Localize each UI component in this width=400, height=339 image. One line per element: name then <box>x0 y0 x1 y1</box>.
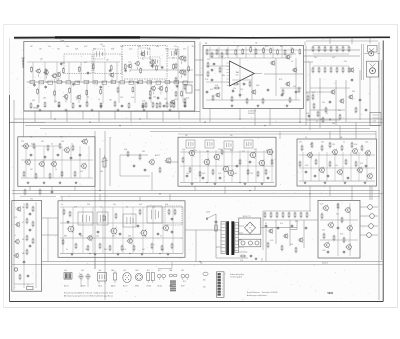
capacitor C42 <box>343 250 346 254</box>
transistor Q44 <box>351 148 357 155</box>
scan noise wash <box>10 38 383 301</box>
resistor R62 <box>115 213 117 220</box>
block G inner buses <box>299 155 375 181</box>
transistor Q11 <box>170 99 175 108</box>
IF transformer T2 <box>138 48 150 58</box>
transistor Q43 <box>331 149 337 156</box>
horizontal supply rail 2 <box>10 122 383 123</box>
svg-text:330: 330 <box>142 151 145 153</box>
legend small symbol a <box>203 272 208 288</box>
transformer core bar 2 <box>231 221 234 255</box>
block B capacitors <box>211 68 284 97</box>
transistor Q61 <box>344 207 350 214</box>
transistor Q18 <box>285 81 290 87</box>
resistor R58 <box>32 238 34 245</box>
svg-text:47n: 47n <box>280 223 283 225</box>
op-amp module border <box>203 46 304 109</box>
svg-text:560: 560 <box>66 46 69 48</box>
resistor R57 <box>32 221 34 228</box>
front panel control P4 <box>367 233 378 238</box>
svg-text:0,1: 0,1 <box>265 223 267 225</box>
transistor Q40 <box>222 165 229 173</box>
transistor Q15 <box>149 59 154 68</box>
volume potentiometer <box>100 155 108 173</box>
capacitor C41 <box>327 250 330 254</box>
capacitor C37 <box>157 232 160 236</box>
svg-text:Alle Spannungen gemessen mit R: Alle Spannungen gemessen mit Rohrenvoltm… <box>64 295 113 298</box>
svg-text:Bemerkung: Schaltbild Nr. 5010: Bemerkung: Schaltbild Nr. 5010-23 · Gult… <box>64 292 113 295</box>
transistor Q23 <box>349 67 354 73</box>
block I labels <box>61 204 168 251</box>
svg-text:15k: 15k <box>233 88 236 90</box>
block D ground symbols <box>27 181 78 184</box>
transistor Q53 <box>14 253 19 259</box>
transistor Q8 <box>127 63 132 72</box>
capacitor C28 <box>365 164 368 168</box>
svg-text:220: 220 <box>306 93 309 95</box>
bus resistor chain <box>30 80 188 84</box>
svg-text:100: 100 <box>100 44 103 46</box>
block F inner verticals <box>184 150 272 182</box>
IF transformer T5 <box>186 140 195 148</box>
resistor R33 <box>212 169 214 176</box>
block G inner verticals <box>303 152 367 181</box>
detector stage <box>124 149 161 173</box>
svg-text:33k: 33k <box>62 62 65 64</box>
capacitor C29 <box>29 212 32 216</box>
svg-text:8,2k: 8,2k <box>192 46 195 48</box>
svg-text:33k: 33k <box>112 236 115 238</box>
IF transformer T4 <box>168 49 179 58</box>
capacitor C31 <box>29 244 32 248</box>
svg-text:47n: 47n <box>76 99 79 101</box>
right vertical bus 2 <box>380 60 382 260</box>
power area labels <box>200 216 328 265</box>
svg-text:0,22: 0,22 <box>202 173 205 175</box>
resistor R50 <box>345 159 347 166</box>
svg-text:0,1: 0,1 <box>316 121 318 123</box>
resistor R23 <box>59 143 61 150</box>
capacitor C24 <box>305 170 308 174</box>
transistor Q10 <box>158 85 163 94</box>
svg-text:22n: 22n <box>113 204 116 206</box>
transistor Q38 <box>249 151 256 159</box>
front panel control P2 <box>370 214 378 219</box>
svg-text:4,7k: 4,7k <box>270 240 273 242</box>
svg-text:3,3k: 3,3k <box>215 85 218 87</box>
svg-text:220: 220 <box>332 144 335 146</box>
legend symbol EABC <box>169 269 177 288</box>
transistor Q52 <box>14 239 19 245</box>
svg-text:68k: 68k <box>222 75 225 77</box>
capacitor C22 <box>249 160 252 164</box>
svg-text:BV100: BV100 <box>34 108 39 110</box>
connector strip <box>217 272 225 298</box>
transistor Q49 <box>366 173 372 180</box>
capacitor C19 <box>202 176 205 180</box>
transistor Q67 <box>283 233 288 239</box>
svg-text:4,7k: 4,7k <box>14 217 17 219</box>
svg-text:15k: 15k <box>314 57 317 59</box>
resistor R47 <box>299 161 301 168</box>
svg-text:100: 100 <box>234 173 237 175</box>
resistor R78 <box>343 237 345 244</box>
wire B-to-C <box>304 44 364 80</box>
svg-text:1n: 1n <box>71 144 73 146</box>
AFC block border <box>12 201 42 292</box>
AF transformer T9 <box>78 212 93 225</box>
legend text stack <box>170 281 186 292</box>
left corner wiring <box>10 111 45 137</box>
legend symbol AC151 <box>64 269 72 288</box>
oscillator dashed box 1 <box>64 54 92 74</box>
tuner IF block border <box>24 42 195 112</box>
rectifier output wires <box>261 228 297 262</box>
resistor R70 <box>133 245 135 252</box>
resistor R37 <box>257 171 259 178</box>
svg-text:8,2k: 8,2k <box>150 59 153 61</box>
svg-text:6,8k: 6,8k <box>306 113 309 115</box>
resistor R72 <box>161 245 163 252</box>
transistor Q42 <box>306 152 312 159</box>
svg-text:1k: 1k <box>27 285 29 287</box>
svg-text:33k: 33k <box>81 141 84 143</box>
svg-text:10k: 10k <box>22 239 25 241</box>
svg-text:0,47: 0,47 <box>332 57 335 59</box>
antenna <box>21 58 24 68</box>
transistor Q17 <box>285 54 290 60</box>
svg-text:220: 220 <box>87 204 90 206</box>
block B under-triangle parts <box>232 80 252 90</box>
svg-text:1k: 1k <box>55 169 57 171</box>
svg-text:220: 220 <box>40 59 43 61</box>
svg-text:22n: 22n <box>30 137 33 139</box>
block D lower parts <box>20 189 56 201</box>
svg-text:33k: 33k <box>200 263 203 265</box>
IF transformer T7 <box>224 141 233 149</box>
transistor Q29 <box>38 161 44 168</box>
block A internal verticals <box>33 62 183 103</box>
svg-text:100: 100 <box>293 86 296 88</box>
block A mid caps row <box>145 97 175 109</box>
transistor Q33 <box>63 147 69 154</box>
svg-text:10k: 10k <box>321 142 324 144</box>
svg-text:470: 470 <box>242 151 245 153</box>
block A resistors <box>30 63 189 97</box>
svg-text:10k: 10k <box>332 123 335 125</box>
resistor R27 <box>49 173 51 180</box>
svg-text:330: 330 <box>254 149 257 151</box>
block B inner hwires <box>206 50 303 100</box>
power supply lower parts <box>216 252 257 260</box>
legend symbol AC117 <box>123 269 131 288</box>
right resistor row upper <box>312 46 350 55</box>
transistor Q30 <box>50 161 56 168</box>
schematic frame bottom border <box>10 301 384 303</box>
svg-text:24-6070: 24-6070 <box>248 113 255 115</box>
transistor Q34 <box>188 149 195 157</box>
left-of-K resistors <box>267 242 297 254</box>
resistor R52 <box>26 203 28 210</box>
svg-text:EM8: EM8 <box>136 270 139 272</box>
legend symbol EM84 <box>135 270 143 288</box>
left vertical bus <box>13 100 15 290</box>
transistor Q41 <box>266 148 273 156</box>
svg-text:10k: 10k <box>186 173 189 175</box>
block A right column parts <box>175 46 192 110</box>
power to K wire <box>262 220 297 262</box>
svg-text:470: 470 <box>299 142 302 144</box>
svg-text:1n: 1n <box>66 249 68 251</box>
svg-text:800: 800 <box>203 287 206 289</box>
svg-text:1k: 1k <box>61 204 63 206</box>
svg-text:5010: 5010 <box>328 292 334 295</box>
svg-text:220: 220 <box>61 141 64 143</box>
resistor R44 <box>341 145 343 152</box>
resistor R76 <box>341 217 343 224</box>
svg-text:4,7k: 4,7k <box>131 97 134 99</box>
transistor Q19 <box>251 89 256 95</box>
resistor R38 <box>265 169 267 176</box>
svg-text:470: 470 <box>322 230 325 232</box>
capacitor C18 <box>186 174 189 178</box>
transistor Q9 <box>150 85 155 94</box>
legend symbol BC148 <box>147 270 155 288</box>
schematic frame top smudged line <box>14 37 390 39</box>
svg-text:0,22: 0,22 <box>84 46 87 48</box>
svg-text:NF: NF <box>205 43 207 45</box>
resistor R40 <box>301 145 303 152</box>
block A bottom border emphasis <box>24 108 200 112</box>
svg-text:220: 220 <box>102 46 105 48</box>
legend caption text <box>64 292 113 298</box>
svg-text:0,22: 0,22 <box>129 49 132 51</box>
svg-text:120: 120 <box>250 173 253 175</box>
svg-text:220: 220 <box>21 141 24 143</box>
capacitor C33 <box>67 220 70 224</box>
svg-text:10k: 10k <box>153 97 156 99</box>
svg-text:3,3k: 3,3k <box>354 144 357 146</box>
resistor R68 <box>109 245 111 252</box>
block K inner wires <box>320 203 358 256</box>
transistor Q59 <box>126 238 132 245</box>
svg-text:1n: 1n <box>343 142 345 144</box>
resistor R75 <box>337 203 339 210</box>
resistor R32 <box>199 171 201 178</box>
svg-text:3,3k: 3,3k <box>120 46 123 48</box>
svg-text:1k: 1k <box>14 235 16 237</box>
svg-text:2,2k: 2,2k <box>147 49 150 51</box>
svg-text:6,8k: 6,8k <box>75 49 78 51</box>
transistor Q55 <box>110 227 117 235</box>
block B lower resistors <box>214 87 291 104</box>
svg-text:33k: 33k <box>352 91 355 93</box>
speaker jack symbol 2 <box>367 61 379 77</box>
resistor R53 <box>26 218 28 225</box>
capacitor C16 <box>70 156 73 160</box>
resistor R51 <box>355 161 357 168</box>
svg-text:47n: 47n <box>174 46 177 48</box>
resistor R22 <box>47 145 49 152</box>
resistor R46 <box>361 145 363 152</box>
svg-text:3,3k: 3,3k <box>186 97 189 99</box>
resistor R56 <box>32 206 34 213</box>
svg-text:2,2k: 2,2k <box>218 173 221 175</box>
block D labels <box>21 141 84 173</box>
svg-text:120: 120 <box>218 149 221 151</box>
feedback resistor row <box>235 46 301 56</box>
resistor R29 <box>74 171 76 178</box>
svg-text:B25: B25 <box>182 270 185 272</box>
resistor R55 <box>26 249 28 256</box>
transistor Q54 <box>67 225 74 233</box>
svg-text:0,1: 0,1 <box>291 61 293 63</box>
wires H to I <box>42 218 58 262</box>
svg-text:220: 220 <box>80 236 83 238</box>
area C wiring <box>310 62 370 130</box>
front panel control P3 <box>369 224 378 229</box>
svg-text:100: 100 <box>338 110 341 112</box>
transistor Q5 <box>63 94 68 103</box>
svg-text:BC148: BC148 <box>147 286 152 288</box>
svg-text:4,7k: 4,7k <box>265 46 268 48</box>
svg-text:0,1: 0,1 <box>126 207 128 209</box>
mains lead <box>206 212 217 259</box>
resistor R73 <box>171 243 173 250</box>
svg-text:0,1: 0,1 <box>87 97 89 99</box>
left-of-K labels <box>265 221 298 246</box>
svg-text:Anderungen vorbehalten !: Anderungen vorbehalten ! <box>247 294 268 297</box>
capacitor C34 <box>97 230 100 234</box>
svg-text:Farben der großen: Farben der großen <box>230 273 244 276</box>
driver cluster <box>165 206 182 225</box>
svg-text:22n: 22n <box>335 165 338 167</box>
block B drop wires <box>210 46 306 126</box>
svg-text:6,8k: 6,8k <box>165 204 168 206</box>
svg-text:220: 220 <box>41 141 44 143</box>
svg-text:0,1: 0,1 <box>305 137 307 139</box>
horizontal supply rail 1 <box>14 118 383 119</box>
horizontal mid rail 1 <box>12 190 380 191</box>
horizontal mid rail 3 <box>60 196 380 198</box>
block H lower circle <box>14 268 17 271</box>
resistor R59 <box>63 209 65 216</box>
svg-text:100: 100 <box>161 249 164 251</box>
legend symbol OA70 <box>98 269 107 288</box>
transistor Q57 <box>162 224 168 231</box>
horizontal supply rail 3 <box>25 125 380 126</box>
block I inner buses <box>60 207 183 254</box>
resistor R21 <box>33 143 35 150</box>
block I ground symbols <box>71 253 170 256</box>
IF transformer T6 <box>205 140 214 148</box>
svg-text:10k: 10k <box>290 244 293 246</box>
resistor R60 <box>69 211 71 218</box>
transistor Q46 <box>318 167 324 174</box>
svg-text:68k: 68k <box>206 151 209 153</box>
transistor Q13 <box>178 69 183 78</box>
transistor Q58 <box>86 235 92 242</box>
drop wires F-to-rails <box>195 186 255 194</box>
resistor R65 <box>75 243 77 250</box>
svg-text:BC1: BC1 <box>147 270 150 272</box>
svg-text:22n: 22n <box>194 150 197 152</box>
svg-text:3,3k: 3,3k <box>142 101 145 103</box>
capacitor C39 <box>79 232 82 236</box>
block A lower strip <box>30 101 186 110</box>
svg-text:5n: 5n <box>237 46 239 48</box>
block G labels <box>299 142 368 168</box>
AF transformer T11 <box>123 214 136 227</box>
resistor R61 <box>103 215 105 222</box>
transistor Q2 <box>43 69 48 78</box>
transformer core bar 1 <box>226 221 229 255</box>
svg-text:2,2k: 2,2k <box>128 61 131 63</box>
rectifier box <box>239 218 261 234</box>
svg-text:33k: 33k <box>22 207 25 209</box>
svg-text:560: 560 <box>93 49 96 51</box>
A-row top labels <box>60 39 258 47</box>
transistor Q12 <box>178 55 183 64</box>
svg-text:47n: 47n <box>295 221 298 223</box>
transistor Q60 <box>322 205 328 212</box>
transistor Q45 <box>364 150 370 157</box>
transistor Q28 <box>24 159 30 166</box>
left-of-K capacitors <box>265 224 308 230</box>
svg-text:800: 800 <box>203 280 206 282</box>
svg-text:68k: 68k <box>340 137 343 139</box>
legend symbol AC122 <box>158 269 166 288</box>
svg-text:220: 220 <box>207 59 210 61</box>
svg-text:68k: 68k <box>22 253 25 255</box>
transistor Q24 <box>339 98 344 104</box>
svg-text:0,22: 0,22 <box>305 165 308 167</box>
transistor Q26 <box>330 89 335 95</box>
transistor Q22 <box>215 92 220 98</box>
svg-text:2,2k: 2,2k <box>365 142 368 144</box>
svg-text:570: 570 <box>236 75 239 77</box>
regulator block border <box>318 200 360 258</box>
resistor R48 <box>315 159 317 166</box>
capacitor C38 <box>171 230 174 234</box>
pre-regulator resistor row <box>263 211 311 218</box>
block H inner vertical <box>24 202 36 288</box>
long vertical feed 1 <box>94 131 96 269</box>
component value labels block A <box>30 46 195 103</box>
svg-text:47n: 47n <box>336 214 339 216</box>
resistor R66 <box>87 245 89 252</box>
svg-text:im Gerat geprüft: im Gerat geprüft <box>230 275 243 278</box>
capacitor C13 <box>30 153 33 157</box>
svg-text:6,8k: 6,8k <box>230 150 233 152</box>
svg-text:4,7k: 4,7k <box>182 149 185 151</box>
transistor Q7 <box>109 72 114 81</box>
long vertical feed 2 <box>104 131 106 300</box>
transistor Q51 <box>15 222 20 228</box>
svg-text:1k: 1k <box>326 113 328 115</box>
IF inner dashed box <box>122 46 167 80</box>
svg-text:0,1: 0,1 <box>31 144 33 146</box>
transistor Q48 <box>356 167 362 174</box>
document number <box>328 292 334 295</box>
svg-text:5n: 5n <box>51 144 53 146</box>
IF transformer T3 <box>150 57 160 66</box>
schematic frame right border <box>382 41 384 302</box>
capacitor C17 <box>79 153 82 157</box>
input resistor network <box>206 49 228 59</box>
capacitor C40 <box>337 226 340 230</box>
svg-text:8,2k: 8,2k <box>279 79 282 81</box>
